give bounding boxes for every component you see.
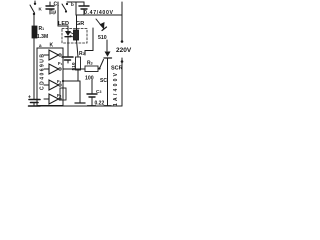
wire horizontal link [63,80,80,82]
svg-text:SCR: SCR [111,66,123,72]
switch K2 (second pole) [62,3,68,13]
wire R3 to gate [98,68,100,71]
svg-text:GR: GR [76,21,84,27]
wire top stub above switch K [34,1,36,4]
resistor R2 [76,57,81,70]
inverter F1 [44,50,61,60]
wire sense branch horizontal [85,50,93,52]
wire top right segment [67,1,84,3]
inverter F3 [44,80,61,90]
svg-text:F3: F3 [57,93,62,98]
node dot right rail [121,40,124,43]
svg-text:SC: SC [100,78,107,84]
inverter F2 [44,64,61,74]
photoresistor GR symbol [74,15,79,57]
svg-text:F1: F1 [58,61,63,66]
wire right rail lower [121,58,123,106]
svg-text:510: 510 [98,35,107,41]
capacitor C5 electrolytic [29,100,40,107]
capacitor C2 [62,57,73,63]
svg-text:F2: F2 [57,79,62,84]
svg-text:+: + [28,95,31,101]
svg-text:1.3M: 1.3M [37,34,48,40]
wire jog to LED [58,25,68,27]
resistor R1 [32,26,37,38]
foot SCR [104,105,111,107]
svg-text:LED: LED [58,21,69,27]
wire IC to R3 [63,68,85,70]
diode D1 diagonal [96,19,107,31]
wire top rail [76,14,122,16]
node dot gate [98,67,100,69]
capacitor C3 [87,80,97,106]
foot left cap [29,105,41,107]
LED diode symbol [65,26,71,44]
wire left rail upper [33,15,35,26]
node dot SCR anode branch [121,60,124,63]
capacitor C1 [46,2,54,14]
foot C3 [88,105,96,107]
svg-text:1µ: 1µ [51,10,57,16]
node dot [62,80,64,82]
wire LED bottom to C2 [67,44,69,56]
wire drop to C4 [79,81,81,103]
LED light arrows [71,33,74,35]
wire right rail upper [121,2,123,41]
wire drop to rail [75,2,77,15]
resistor R3 [85,66,98,72]
wire sense tick [84,51,86,56]
inverter F4 [44,94,61,104]
svg-text:K: K [50,43,54,49]
SCR [100,52,112,107]
dashed optocoupler box [62,29,87,44]
capacitor C dropper 0.47/400V [79,2,89,15]
wire to SCR anode [106,40,108,51]
switch K [30,3,36,16]
wire sense branch vertical [92,28,94,51]
resistor R4 beside IC [60,81,66,106]
wire R2 bottom lead [77,70,79,81]
svg-text:220V: 220V [116,47,132,54]
IC box CD4069 [37,48,63,106]
svg-text:b: b [71,2,74,7]
bottom tick bar [75,102,85,104]
wire left rail lower [33,38,35,100]
wire vertical from top to LED branch [57,2,59,26]
wire bottom rail [34,105,122,107]
